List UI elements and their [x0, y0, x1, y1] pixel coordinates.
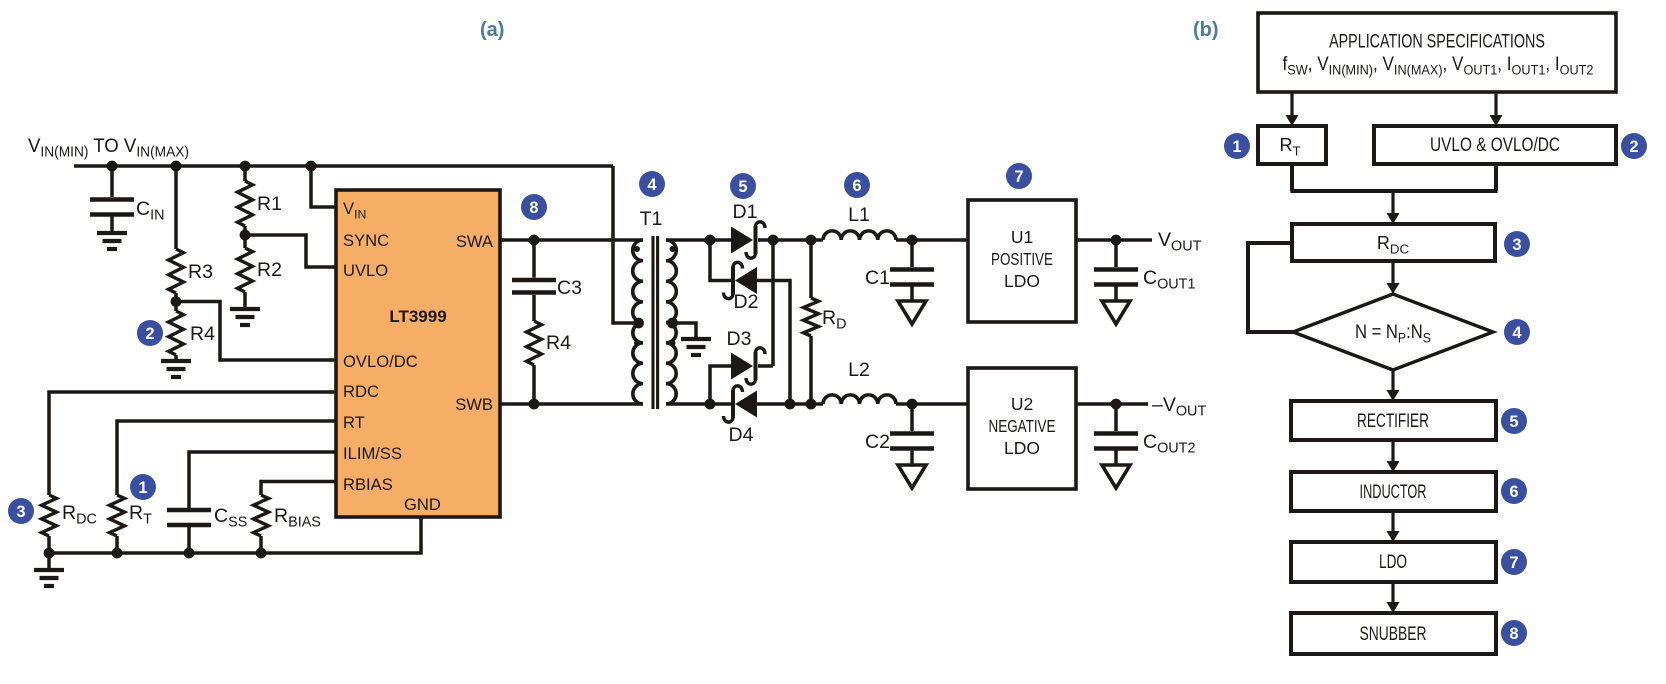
node C2	[907, 399, 918, 410]
callout 3 flow	[1504, 231, 1530, 257]
callout 7	[1006, 163, 1032, 189]
svg-text:L1: L1	[848, 204, 870, 226]
wire secondary top	[666, 238, 731, 242]
resistor R1	[243, 166, 247, 181]
callout 8 flow	[1501, 620, 1527, 646]
wire RT pin to RT resistor	[117, 421, 336, 495]
phase dot primary bottom	[634, 340, 640, 346]
svg-text:OVLO/DC: OVLO/DC	[343, 352, 418, 371]
wire D3 cathode to node A drop	[758, 364, 773, 368]
svg-text:7: 7	[1014, 168, 1023, 186]
flow decision N = NP:NS	[1293, 294, 1493, 370]
svg-text:6: 6	[1509, 483, 1518, 501]
svg-text:INDUCTOR: INDUCTOR	[1360, 482, 1427, 503]
node VIN rail / R3	[171, 161, 182, 172]
node B / RD bottom	[806, 399, 817, 410]
flow box RDC	[1292, 224, 1495, 261]
node rail/CSS	[184, 548, 195, 559]
svg-text:UVLO & OVLO/DC: UVLO & OVLO/DC	[1430, 133, 1560, 155]
svg-text:SWA: SWA	[456, 232, 494, 251]
node secondary top / D2 branch	[705, 235, 716, 246]
svg-text:VOUT: VOUT	[1158, 229, 1202, 255]
svg-text:8: 8	[529, 199, 538, 217]
callout 4 flow	[1504, 319, 1530, 345]
node VIN rail / CIN	[107, 161, 118, 172]
capacitor CSS	[167, 508, 211, 513]
svg-text:C2: C2	[865, 431, 890, 453]
inductor L2	[823, 395, 896, 404]
resistor R3	[174, 166, 178, 249]
node A / RD top	[806, 235, 817, 246]
svg-text:RDC: RDC	[343, 382, 379, 401]
svg-text:(a): (a)	[480, 19, 504, 41]
block U1 positive LDO	[968, 200, 1076, 322]
svg-text:D1: D1	[733, 201, 758, 223]
transformer T1 secondary winding	[666, 240, 676, 323]
flow box UVLO & OVLO/DC	[1374, 126, 1616, 164]
svg-text:8: 8	[1509, 625, 1518, 643]
resistor RD	[809, 240, 813, 298]
wire VIN rail drop to transformer center tap	[613, 166, 641, 323]
capacitor C1	[910, 240, 914, 267]
node C1	[907, 235, 918, 246]
svg-text:RD: RD	[822, 307, 847, 333]
node secondary bottom / D3	[705, 399, 716, 410]
flow connector merge	[1290, 189, 1497, 193]
callout 1 flow	[1224, 133, 1250, 159]
svg-text:RT: RT	[343, 413, 365, 432]
capacitor CIN	[110, 166, 114, 197]
svg-text:1: 1	[1232, 138, 1241, 156]
flow arrow to RECTIFIER	[1391, 370, 1394, 391]
node rail/RDC	[44, 548, 55, 559]
phase dot primary top	[634, 246, 640, 252]
op IC U LT3999	[336, 190, 500, 517]
svg-text:U2: U2	[1011, 394, 1033, 414]
svg-text:COUT2: COUT2	[1143, 431, 1195, 457]
wire SWA	[500, 238, 643, 242]
flow arrow to diamond	[1391, 261, 1394, 284]
node SWA/snubber	[529, 235, 540, 246]
svg-text:3: 3	[1512, 236, 1521, 254]
wire D4 anode to node B	[757, 402, 823, 406]
block U2 negative LDO	[968, 368, 1076, 489]
resistor RDC	[42, 495, 57, 536]
svg-text:CIN: CIN	[136, 198, 165, 224]
callout 8	[521, 194, 547, 220]
flow box APPLICATION SPECIFICATIONS	[1258, 13, 1616, 92]
node rail/RT	[112, 548, 123, 559]
svg-text:D2: D2	[734, 291, 759, 313]
node B / D2 junction	[785, 399, 796, 410]
callout 5	[730, 173, 756, 199]
wire SWB	[500, 402, 643, 406]
svg-text:RECTIFIER: RECTIFIER	[1357, 410, 1429, 432]
wire secondary top to D2 cathode	[710, 240, 733, 281]
node R3/R4 junction	[171, 296, 182, 307]
svg-text:3: 3	[16, 503, 25, 521]
svg-text:R2: R2	[257, 259, 282, 281]
ground symbol main	[47, 553, 51, 568]
callout 1	[130, 474, 156, 500]
flow arrow to SNUBBER	[1391, 582, 1394, 603]
svg-text:LDO: LDO	[1004, 271, 1040, 291]
diode D2	[735, 267, 757, 294]
svg-text:6: 6	[852, 177, 861, 195]
flow loop RDC/diamond	[1248, 243, 1295, 332]
svg-text:RT: RT	[129, 502, 152, 528]
callout 5 flow	[1501, 408, 1527, 434]
svg-text:(b): (b)	[1193, 19, 1219, 41]
flow box SNUBBER	[1291, 613, 1496, 654]
resistor RBIAS	[254, 495, 269, 536]
callout 4	[639, 171, 665, 197]
wire secondary bottom	[666, 402, 733, 406]
wire RDC pin to RDC resistor	[49, 392, 336, 495]
svg-text:SNUBBER: SNUBBER	[1360, 623, 1427, 645]
svg-text:R4: R4	[546, 332, 571, 354]
node COUT1	[1111, 235, 1122, 246]
svg-text:VIN(MIN) TO VIN(MAX): VIN(MIN) TO VIN(MAX)	[28, 136, 189, 160]
svg-text:GND: GND	[404, 495, 441, 514]
svg-text:COUT1: COUT1	[1143, 267, 1195, 293]
svg-text:N = NP:NS: N = NP:NS	[1355, 321, 1431, 346]
wire U1 output	[1076, 238, 1152, 242]
flow box RECTIFIER	[1291, 401, 1496, 440]
svg-text:LDO: LDO	[1379, 551, 1407, 573]
wire R3/R4 junction to OVLO/DC	[176, 302, 336, 361]
ground under CIN	[97, 231, 127, 235]
wire ILIM/SS pin to CSS	[189, 452, 336, 508]
wire VIN rail to VIN pin	[311, 166, 336, 207]
wire RBIAS pin to RBIAS resistor	[261, 482, 336, 496]
diode D3	[731, 353, 753, 380]
wire L2 to U2	[896, 402, 968, 406]
callout 6	[844, 172, 870, 198]
inductor L1	[823, 231, 896, 240]
svg-text:RBIAS: RBIAS	[274, 505, 321, 531]
capacitor COUT2	[1114, 404, 1118, 431]
wire ground rail / GND pin	[49, 517, 421, 553]
flow arrow to INDUCTOR	[1391, 440, 1394, 462]
svg-text:7: 7	[1509, 554, 1518, 572]
node SWB/snubber	[529, 399, 540, 410]
node primary center tap	[633, 318, 644, 329]
svg-text:D3: D3	[727, 328, 752, 350]
resistor R4 (snubber)	[527, 321, 542, 365]
diode D4	[735, 391, 757, 418]
svg-text:D4: D4	[729, 424, 754, 446]
flow arrow to RT	[1290, 92, 1293, 116]
svg-text:–VOUT: –VOUT	[1152, 394, 1206, 420]
transformer T1 primary winding	[633, 240, 643, 323]
callout 2 flow	[1621, 133, 1647, 159]
svg-text:4: 4	[647, 176, 657, 194]
phase dot secondary top	[670, 246, 676, 252]
wire secondary center tap to ground	[673, 323, 697, 337]
ground secondary	[681, 337, 711, 341]
svg-text:2: 2	[145, 325, 154, 343]
callout 3	[8, 498, 34, 524]
diode D1	[731, 227, 753, 254]
svg-text:RBIAS: RBIAS	[343, 475, 393, 494]
svg-text:4: 4	[1512, 324, 1522, 342]
svg-text:POSITIVE: POSITIVE	[991, 250, 1053, 269]
svg-text:RDC: RDC	[62, 502, 97, 528]
svg-text:1: 1	[138, 479, 147, 497]
node rail/RBIAS	[256, 548, 267, 559]
node A (D1/D3 junction)	[768, 235, 779, 246]
svg-text:R3: R3	[188, 261, 213, 283]
node COUT2	[1111, 399, 1122, 410]
wire VIN rail	[74, 164, 613, 168]
svg-text:LT3999: LT3999	[389, 307, 446, 326]
svg-text:UVLO: UVLO	[343, 261, 388, 280]
svg-text:5: 5	[1509, 413, 1518, 431]
capacitor C3 (snubber)	[532, 240, 536, 278]
ground under R4	[161, 359, 191, 363]
flow arrow to RDC	[1391, 191, 1394, 214]
callout 7 flow	[1501, 549, 1527, 575]
node R1/R2 junction	[240, 230, 251, 241]
phase dot secondary bottom	[670, 340, 676, 346]
callout 2	[137, 320, 163, 346]
capacitor COUT1	[1114, 240, 1118, 267]
wire D3 anode to secondary bottom	[710, 366, 731, 404]
wire L1 to U1	[896, 238, 968, 242]
svg-text:5: 5	[738, 178, 747, 196]
svg-text:T1: T1	[640, 208, 663, 230]
svg-text:NEGATIVE: NEGATIVE	[989, 417, 1056, 436]
svg-text:L2: L2	[848, 359, 870, 381]
resistor R4 (divider)	[174, 302, 178, 312]
svg-text:CSS: CSS	[214, 505, 247, 531]
svg-text:ILIM/SS: ILIM/SS	[343, 444, 402, 463]
flow arrow to LDO	[1391, 511, 1394, 532]
transformer core	[651, 236, 654, 409]
ground triangle C1	[898, 301, 926, 324]
svg-text:C1: C1	[865, 267, 890, 289]
wire node A to D3 cathode	[771, 240, 775, 366]
resistor RT	[110, 495, 125, 536]
svg-text:APPLICATION SPECIFICATIONS: APPLICATION SPECIFICATIONS	[1329, 31, 1545, 52]
flow box LDO	[1291, 542, 1496, 582]
flow connector UVLO down	[1494, 164, 1498, 191]
capacitor C2	[910, 404, 914, 431]
flow box INDUCTOR	[1291, 472, 1496, 511]
svg-text:U1: U1	[1011, 227, 1033, 247]
svg-text:R1: R1	[257, 193, 282, 215]
resistor R2	[243, 235, 247, 248]
ground triangle COUT2	[1102, 465, 1130, 488]
wire U2 output	[1076, 402, 1148, 406]
svg-text:SYNC: SYNC	[343, 231, 389, 250]
node VIN rail / R1	[240, 161, 251, 172]
wire R1/R2 junction to UVLO	[245, 235, 336, 267]
callout 6 flow	[1501, 478, 1527, 504]
ground triangle C2	[898, 465, 926, 488]
svg-text:2: 2	[1629, 138, 1638, 156]
wire D1 cathode to node A	[758, 238, 823, 242]
svg-text:SWB: SWB	[455, 395, 493, 414]
flow box RT	[1258, 126, 1326, 164]
node secondary center tap	[667, 318, 678, 329]
wire D2 anode down to bottom rail	[757, 281, 790, 405]
svg-text:LDO: LDO	[1004, 438, 1040, 458]
svg-text:R4: R4	[190, 323, 215, 345]
ground triangle COUT1	[1102, 301, 1130, 324]
node VIN rail / VIN pin	[306, 161, 317, 172]
flow arrow to UVLO	[1494, 92, 1497, 116]
flow connector RT down	[1290, 164, 1294, 191]
ground under R2	[230, 307, 260, 311]
svg-text:C3: C3	[557, 277, 582, 299]
